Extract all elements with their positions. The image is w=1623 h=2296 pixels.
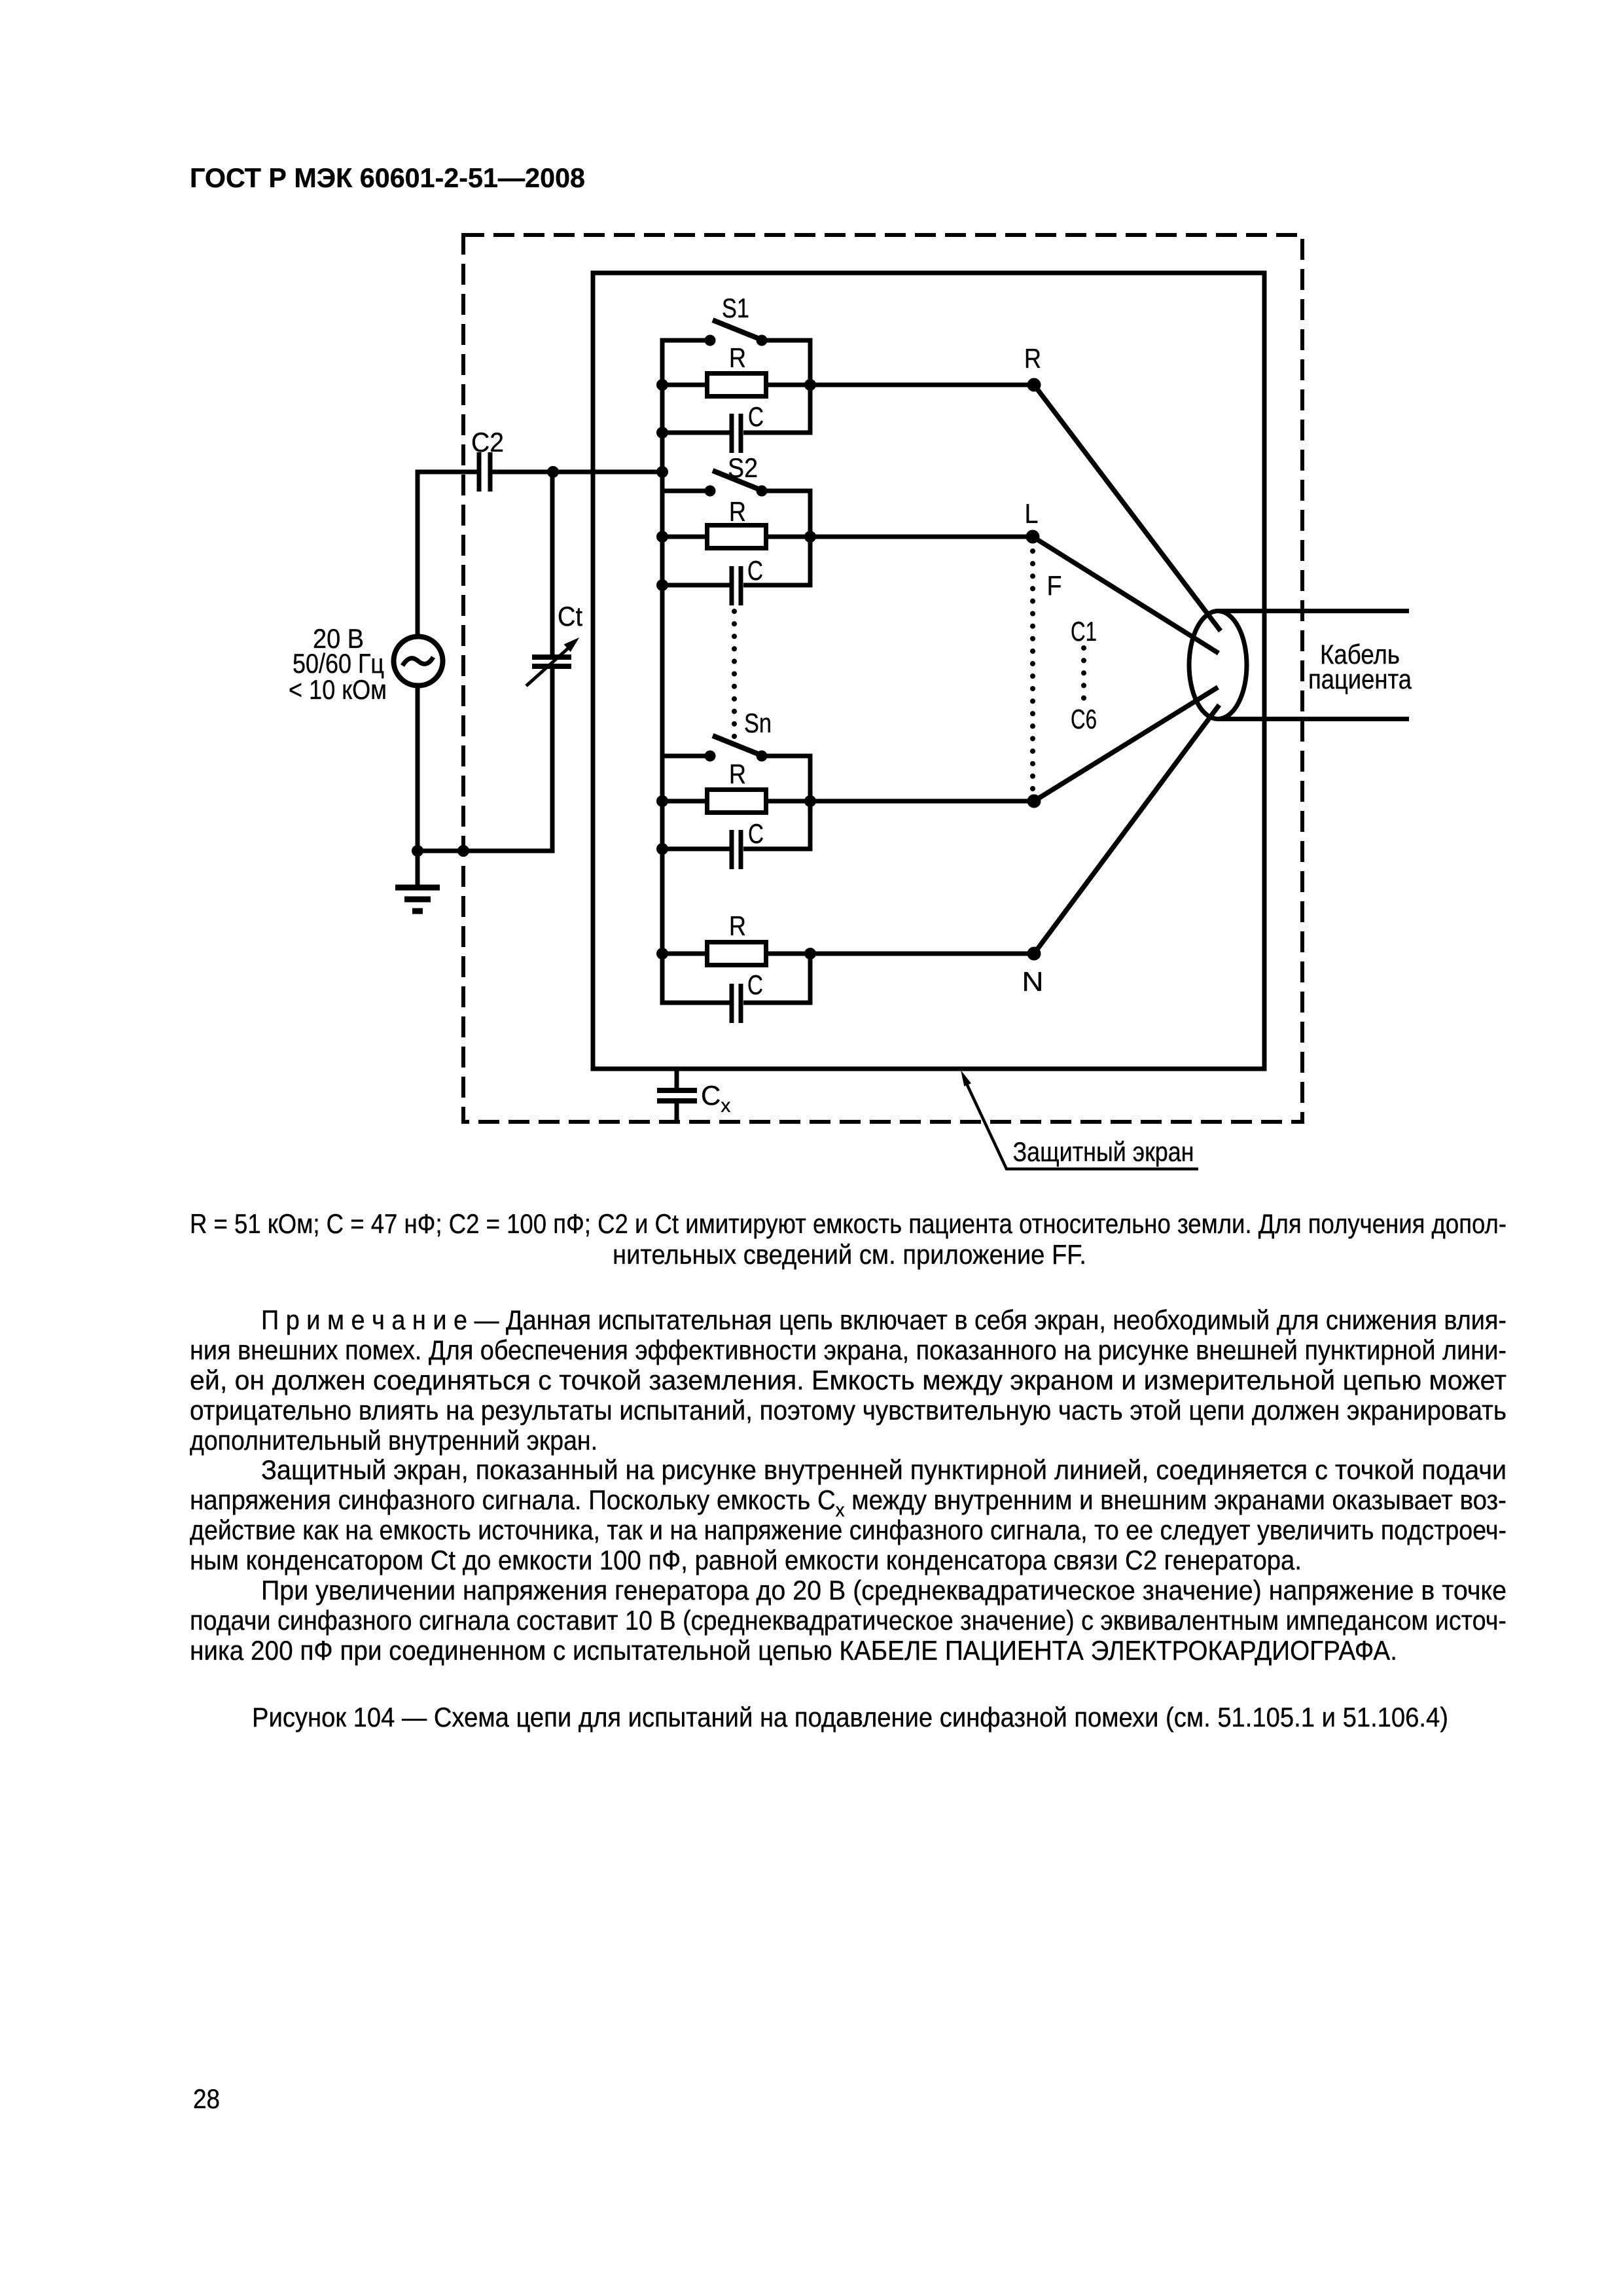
svg-text:C: C [747, 555, 763, 586]
wire R row to node [768, 799, 1034, 804]
svg-text:C: C [748, 818, 764, 849]
switch blade [713, 736, 760, 755]
resistor R body [707, 790, 766, 813]
node L electrode [1026, 530, 1039, 543]
svg-text:Sn: Sn [744, 708, 772, 738]
svg-text:R = 51 кОм; С = 47 нФ; С2 = 10: R = 51 кОм; С = 47 нФ; С2 = 100 пФ; С2 и… [190, 1208, 1507, 1239]
svg-text:ГОСТ Р МЭК 60601-2-51—2008: ГОСТ Р МЭК 60601-2-51—2008 [190, 162, 585, 193]
lead wire L to connector [1033, 537, 1219, 653]
capacitor C plates [730, 414, 734, 453]
capacitor Cx stem upper [675, 1069, 679, 1088]
junction R row left [657, 531, 668, 543]
svg-text:Защитный экран, показанный на: Защитный экран, показанный на рисунке вн… [261, 1454, 1507, 1485]
wire C row right [743, 1001, 810, 1005]
right bus of block [743, 954, 810, 1003]
svg-text:F: F [1047, 570, 1062, 601]
junction R row right [805, 948, 816, 960]
switch contact right [757, 486, 767, 496]
capacitor C2 [477, 452, 482, 492]
junction shield to ground [458, 846, 469, 857]
svg-text:П р и м е ч а н и е — Данная и: П р и м е ч а н и е — Данная испытательн… [261, 1304, 1507, 1335]
wire R row left [662, 383, 705, 387]
source sine symbol [402, 657, 433, 666]
junction C row left [657, 580, 668, 591]
svg-text:нительных сведений см. приложе: нительных сведений см. приложение FF. [613, 1239, 1086, 1270]
junction R row right [805, 531, 816, 543]
wire switch row right and right bus [743, 491, 810, 585]
svg-text:дополнительный внутренний экра: дополнительный внутренний экран. [190, 1425, 597, 1456]
lead wire F to connector [1034, 687, 1218, 801]
junction R row right [805, 380, 816, 391]
Ct variable arrow [526, 646, 571, 686]
wire C row right [743, 431, 810, 435]
junction R row left [657, 948, 668, 960]
svg-text:отрицательно влиять на результ: отрицательно влиять на результаты испыта… [190, 1395, 1507, 1426]
svg-text:R: R [729, 496, 746, 527]
wire switch row left [662, 338, 710, 343]
resistor R body [707, 526, 766, 548]
capacitor C plates [730, 566, 734, 605]
node F electrode [1027, 795, 1041, 808]
capacitor Cx [657, 1088, 697, 1093]
dotted line L to F node [1030, 551, 1035, 793]
svg-text:Ct: Ct [558, 601, 582, 632]
dotted line C1 to C6 [1081, 648, 1086, 700]
svg-text:S2: S2 [728, 452, 758, 483]
wire R row to node [768, 535, 1033, 539]
junction main wire to block bus [657, 467, 668, 478]
junction C row left [657, 427, 668, 439]
patient cable connector ellipse [1189, 611, 1247, 719]
svg-text:С1: С1 [1071, 616, 1097, 647]
switch contact left [705, 486, 715, 496]
wire source top to main node and main wire left segment [418, 472, 477, 636]
wire switch row right and right bus [743, 756, 810, 849]
resistor R body [707, 942, 766, 965]
junction R row left [657, 796, 668, 807]
outer shield (dashed box, заземляемый экран) [463, 235, 1302, 1122]
wire R row to node [768, 383, 1034, 387]
junction R row left [657, 380, 668, 391]
capacitor Cx stem lower [675, 1103, 679, 1124]
wire source bottom and ground wire [418, 669, 552, 851]
wire Ct upper stem [550, 472, 555, 656]
source V1 20V 50/60Hz circle [394, 637, 443, 686]
wire switch row right and right bus [743, 340, 810, 433]
wire C row right [743, 847, 810, 852]
wire R row to node [768, 952, 1034, 956]
wire C row right [743, 583, 810, 588]
switch contact right [757, 335, 767, 346]
capacitor C plates [730, 984, 734, 1023]
svg-text:28: 28 [193, 2083, 220, 2114]
patient cable lower wire [1218, 717, 1409, 721]
node R electrode [1027, 378, 1041, 391]
inner shield box (защитный экран) [593, 273, 1264, 1069]
capacitor C plates [730, 830, 734, 869]
svg-text:C: C [748, 401, 764, 432]
wire switch row left [662, 754, 710, 759]
switch contact left [705, 751, 715, 761]
svg-text:S1: S1 [722, 293, 749, 323]
switch contact left [705, 335, 715, 346]
junction C row left [657, 844, 668, 855]
svg-text:ния внешних помех. Для обеспеч: ния внешних помех. Для обеспечения эффек… [190, 1335, 1507, 1365]
junction Ct tap [548, 467, 559, 478]
svg-text:< 10 кОм: < 10 кОм [289, 674, 387, 705]
svg-text:Сх: Сх [701, 1080, 730, 1117]
lead wire N to connector [1034, 705, 1219, 954]
svg-text:L: L [1025, 498, 1039, 529]
wire R row left [662, 535, 705, 539]
variable capacitor Ct [532, 655, 571, 660]
junction R row right [805, 796, 816, 807]
svg-text:R: R [1024, 343, 1041, 374]
callout Защитный экран [963, 1077, 1198, 1169]
wire R row left [662, 799, 705, 804]
svg-text:Защитный экран: Защитный экран [1013, 1136, 1194, 1167]
svg-text:R: R [729, 759, 746, 789]
svg-text:R: R [729, 342, 746, 373]
switch contact right [757, 751, 767, 761]
left bus of RC blocks [660, 338, 665, 1005]
patient cable upper wire [1216, 609, 1409, 613]
svg-text:ным конденсатором Ct до емкост: ным конденсатором Ct до емкости 100 пФ, … [190, 1545, 1302, 1575]
svg-text:пациента: пациента [1308, 664, 1412, 694]
svg-text:ей, он должен соединяться с то: ей, он должен соединяться с точкой зазем… [190, 1365, 1507, 1395]
wire C2 to bus [492, 470, 662, 475]
switch blade [713, 320, 760, 339]
wire R row left [662, 952, 705, 956]
svg-text:R: R [729, 910, 746, 941]
svg-text:действие как на емкость источн: действие как на емкость источника, так и… [190, 1515, 1507, 1545]
svg-text:ника 200 пФ при соединенном с: ника 200 пФ при соединенном с испытатель… [190, 1635, 1397, 1666]
ground symbol [416, 851, 420, 885]
junction ground node [412, 846, 423, 857]
wire C row left [662, 847, 730, 852]
wire switch row left [662, 489, 710, 493]
wire C row left [662, 431, 730, 435]
node N electrode [1027, 947, 1041, 960]
svg-text:C: C [747, 969, 763, 1000]
resistor R body [707, 374, 766, 397]
svg-text:При увеличении напряжения гене: При увеличении напряжения генератора до … [261, 1575, 1507, 1605]
svg-text:С6: С6 [1071, 704, 1097, 734]
svg-text:N: N [1022, 966, 1044, 997]
svg-text:С2: С2 [471, 427, 504, 457]
wire C row left [662, 1001, 730, 1005]
switch blade [713, 471, 760, 490]
wire C row left [662, 583, 730, 588]
lead wire R to connector [1034, 385, 1221, 631]
svg-text:подачи синфазного сигнала сост: подачи синфазного сигнала составит 10 В … [190, 1605, 1507, 1636]
dotted continuation below block2 [732, 611, 737, 738]
svg-text:Рисунок 104 — Схема цепи для: Рисунок 104 — Схема цепи для испытаний н… [252, 1702, 1448, 1732]
